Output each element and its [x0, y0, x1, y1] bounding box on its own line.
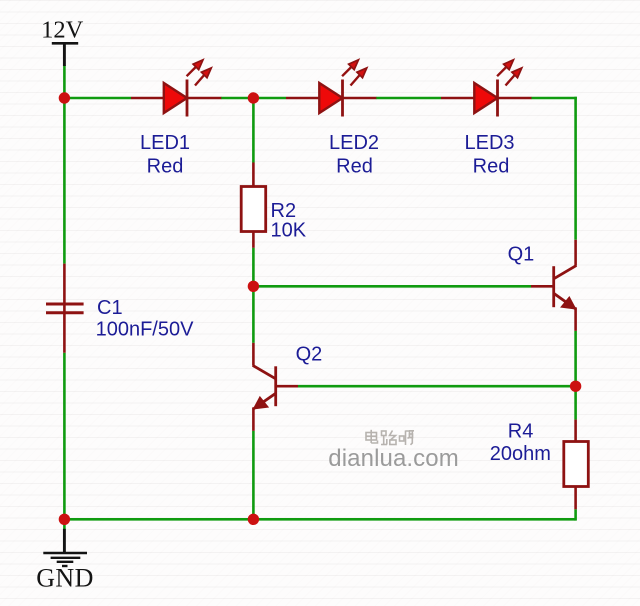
svg-text:100nF/50V: 100nF/50V: [96, 319, 195, 341]
svg-text:C1: C1: [97, 297, 123, 319]
svg-text:Red: Red: [473, 155, 510, 177]
svg-text:Red: Red: [147, 155, 184, 177]
svg-text:LED2: LED2: [329, 132, 379, 154]
svg-text:R4: R4: [508, 420, 534, 442]
svg-text:LED3: LED3: [464, 132, 514, 154]
svg-text:LED1: LED1: [140, 132, 190, 154]
svg-text:Q2: Q2: [296, 344, 323, 366]
svg-text:dianlua.com: dianlua.com: [328, 445, 459, 472]
svg-text:12V: 12V: [41, 16, 84, 43]
svg-text:Red: Red: [336, 155, 373, 177]
svg-text:Q1: Q1: [508, 244, 535, 266]
svg-text:GND: GND: [36, 564, 94, 593]
svg-text:20ohm: 20ohm: [490, 443, 551, 465]
svg-text:10K: 10K: [271, 220, 307, 242]
